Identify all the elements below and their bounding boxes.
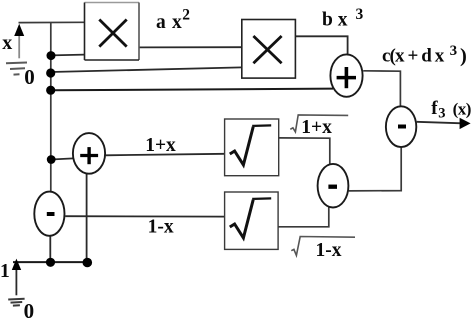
subtractor U4 — [34, 192, 64, 236]
wire subtractor U5 output to U2 lower input — [349, 148, 402, 191]
svg-text:c(x + d x: c(x + d x — [382, 46, 445, 67]
svg-text:1+x: 1+x — [145, 135, 176, 156]
subtractor U2 — [386, 106, 416, 147]
svg-text:0: 0 — [24, 299, 34, 320]
wire subtractor U2 output f3(x) — [417, 122, 462, 124]
svg-text:x: x — [2, 32, 12, 54]
sqrt block S2 — [225, 192, 279, 249]
junction dot node 1 left — [46, 258, 55, 267]
svg-text:): ) — [460, 45, 467, 67]
input arrow x — [14, 24, 24, 36]
subtractor U5 — [318, 164, 349, 208]
wire subtractor U4 output 1-x to sqrt S2 — [65, 215, 224, 217]
wire M2 output to adder U1 — [295, 36, 347, 54]
svg-text:f: f — [431, 98, 438, 119]
junction dot bus tap 3 — [46, 86, 55, 95]
sqrt block S1 — [225, 119, 279, 176]
svg-text:3: 3 — [438, 105, 445, 121]
adder U3 — [73, 133, 105, 174]
svg-text:3: 3 — [356, 6, 364, 23]
label sqrt(1+x) — [290, 115, 348, 132]
input arrow 1 — [12, 259, 21, 270]
wire M1 output to M2 — [139, 46, 242, 48]
wire bus tap to M2 input — [51, 67, 242, 72]
svg-text:a x: a x — [156, 12, 182, 33]
svg-text:3: 3 — [450, 43, 458, 59]
junction dot bus tap 1 — [47, 51, 56, 60]
wire bus tap to adder U1 — [51, 89, 333, 91]
junction dot node 1 right — [83, 258, 93, 268]
wire x input to multiplier M1 — [19, 21, 85, 23]
ground bottom — [8, 299, 24, 306]
wire adder U3 output 1+x to sqrt S1 — [106, 154, 225, 156]
svg-text:1: 1 — [0, 261, 10, 282]
wire vertical bus node x — [50, 23, 52, 192]
svg-text:b x: b x — [322, 9, 348, 30]
svg-text:1+x: 1+x — [301, 117, 332, 138]
wire sqrt S2 output to subtractor U5 bottom — [278, 206, 329, 227]
wire node 1 horizontal — [13, 261, 87, 263]
multiplier M1 — [85, 3, 140, 61]
label sqrt(1-x) — [291, 237, 355, 256]
junction dot bus tap 2 — [46, 68, 55, 77]
junction dot bus tap 4 — [47, 155, 56, 164]
svg-text:1-x: 1-x — [316, 240, 342, 261]
wire subtractor U4 bottom to node 1 — [49, 236, 51, 262]
wire bus tap to adder U3 — [51, 158, 74, 159]
svg-text:(x): (x) — [453, 99, 472, 118]
wire adder U1 output to subtractor U2 — [363, 71, 400, 106]
arrowhead output f3(x) — [460, 118, 471, 129]
multiplier M2 — [242, 20, 296, 79]
svg-text:2: 2 — [182, 7, 190, 24]
ground top — [6, 63, 27, 75]
svg-text:0: 0 — [24, 65, 35, 89]
svg-text:1-x: 1-x — [148, 216, 174, 237]
wire bus tap to M1 second input — [51, 54, 85, 57]
wire sqrt S1 output to subtractor U5 top — [279, 138, 330, 164]
adder U1 — [330, 54, 362, 96]
wire node 1 up to adder U3 bottom — [86, 174, 88, 262]
